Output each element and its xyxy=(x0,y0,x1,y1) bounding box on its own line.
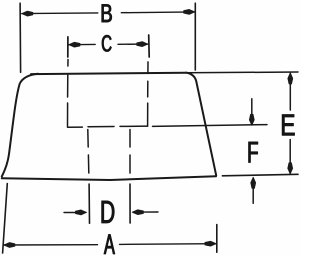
dimension B left extension line xyxy=(19,3,22,72)
body top-right rounded corner and right slant side xyxy=(186,73,216,176)
arrowhead B right xyxy=(184,10,195,15)
arrowhead E down xyxy=(288,163,293,174)
dimension D left extension line xyxy=(88,184,90,223)
dimension C right tick xyxy=(148,35,151,57)
dimension D line left segment xyxy=(64,212,79,214)
arrowhead F up xyxy=(251,177,256,188)
recess hidden line left (D width), dashed xyxy=(88,130,89,174)
recess hidden bottom line (horizontal, dashed inside body) xyxy=(68,126,148,127)
F top reference line (solid, from recess to F arrow) xyxy=(153,125,268,127)
dimension B right extension line xyxy=(194,3,196,70)
arrowhead A right xyxy=(205,241,216,246)
dimension C left tick xyxy=(67,37,69,57)
dimension A line left segment xyxy=(4,244,98,246)
recess hidden line right (D width), dashed xyxy=(129,130,131,174)
label B xyxy=(102,4,112,22)
label D xyxy=(102,201,115,223)
arrowhead A left xyxy=(4,243,15,248)
dimension D right extension line xyxy=(129,184,131,223)
dimension A line right segment xyxy=(120,243,216,246)
dimension E line upper segment xyxy=(289,73,291,110)
label A xyxy=(104,235,115,254)
E top reference line xyxy=(186,71,298,74)
body top-left rounded corner and left slant side xyxy=(2,74,38,177)
dimension B line right segment xyxy=(121,11,194,14)
dimension F lower arrow shaft xyxy=(252,189,254,204)
arrowhead D right (points left) xyxy=(132,210,143,215)
E/F bottom reference line xyxy=(222,174,298,176)
dimension C line right segment xyxy=(118,43,148,45)
arrowhead B left xyxy=(22,11,33,16)
dimension B line left segment xyxy=(22,12,98,15)
body bottom edge xyxy=(2,176,216,180)
dimension A right extension line xyxy=(216,225,218,253)
dimension F upper arrow shaft xyxy=(251,99,253,115)
label C xyxy=(102,35,111,51)
label E xyxy=(282,115,294,136)
dimension A left extension line xyxy=(3,184,8,254)
recess hidden line right (C width), dashed xyxy=(147,62,149,126)
dimension E line lower segment xyxy=(289,140,291,174)
arrowhead C left xyxy=(69,42,80,47)
dimension D line right segment xyxy=(142,211,158,213)
body top edge xyxy=(31,73,186,74)
recess hidden line left (C width), dashed xyxy=(67,60,70,127)
arrowhead E up xyxy=(288,73,293,84)
arrowhead C right xyxy=(137,42,148,47)
label F xyxy=(249,142,258,163)
arrowhead F down xyxy=(249,114,254,125)
dimension C line left segment xyxy=(69,43,95,45)
arrowhead D left (points right) xyxy=(76,210,87,215)
